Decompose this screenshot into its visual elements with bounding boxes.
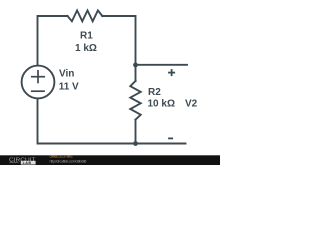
svg-text:V2: V2 (185, 99, 198, 110)
terminal - mark (V2 negative) (169, 137, 172, 139)
wire: output top, node A to right (+ terminal) (136, 64, 188, 66)
node B junction dot (133, 141, 138, 146)
voltage source minus sign (32, 90, 44, 92)
wire: R2 bottom lead down to bottom rail (135, 120, 137, 144)
node A junction dot (133, 63, 138, 68)
svg-text:11 V: 11 V (59, 81, 79, 92)
wire: output bottom, node B to right (- terminal) (136, 143, 186, 145)
resistor R2 zigzag (130, 81, 140, 120)
voltage source V1 circle (22, 66, 55, 99)
wire: top-left corner, from R1 left lead to left rail down to V source top (38, 16, 68, 66)
wire: left rail bottom, V source bottom down and along bottom rail to node B (38, 98, 136, 143)
svg-text:LAB: LAB (23, 161, 32, 165)
watermark logo LAB box (21, 161, 36, 165)
voltage source plus sign (32, 71, 44, 83)
terminal + mark (V2 positive) (169, 70, 174, 75)
resistor R1 zigzag (68, 10, 103, 21)
watermark bar (0, 155, 220, 165)
watermark logo wave (10, 162, 19, 163)
svg-text:http://circuitlab.com/c8tra9i6: http://circuitlab.com/c8tra9i6 (50, 158, 88, 163)
svg-text:R2: R2 (148, 87, 161, 98)
svg-text:1 kΩ: 1 kΩ (75, 43, 97, 54)
svg-text:Vin: Vin (59, 69, 74, 80)
svg-text:R1: R1 (80, 31, 93, 42)
wire: top-right corner, from R1 right lead to right rail down to node A (102, 16, 135, 81)
svg-text:10 kΩ: 10 kΩ (148, 99, 175, 110)
